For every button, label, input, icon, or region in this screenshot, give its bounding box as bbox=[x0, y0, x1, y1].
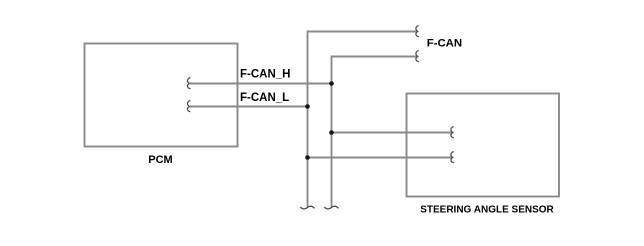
PCM label bbox=[148, 154, 172, 166]
junction dot: sensor upper wire joins bus 2 bbox=[329, 130, 334, 135]
junction dot: sensor lower wire joins bus 1 bbox=[305, 155, 310, 160]
steering angle sensor box bbox=[407, 94, 560, 197]
connector break symbol at upper F-CAN wire end bbox=[416, 26, 419, 37]
wire F-CAN_L from PCM pin to junction on bus 1 bbox=[190, 106, 308, 108]
net label F-CAN_L bbox=[240, 92, 289, 104]
connector break symbol at PCM F-CAN_L pin bbox=[187, 101, 190, 112]
svg-text:F-CAN_H: F-CAN_H bbox=[240, 69, 290, 81]
continuation wave symbol at bottom of bus 1 bbox=[301, 206, 314, 209]
wire from bus 1 junction to steering angle sensor lower pin bbox=[308, 157, 453, 159]
bus wire 1: top horizontal run to F-CAN and vertical drop bbox=[308, 32, 418, 208]
net label F-CAN_H bbox=[240, 69, 290, 81]
wire F-CAN_H from PCM pin to junction on bus 2 bbox=[190, 83, 332, 85]
svg-text:STEERING ANGLE SENSOR: STEERING ANGLE SENSOR bbox=[420, 205, 554, 216]
connector break symbol at sensor upper pin bbox=[451, 127, 454, 138]
junction dot: F-CAN_H joins bus 2 bbox=[329, 81, 334, 86]
connector break symbol at PCM F-CAN_H pin bbox=[187, 78, 190, 89]
bus wire 2: second horizontal run to F-CAN and vertical drop bbox=[332, 57, 418, 208]
svg-text:PCM: PCM bbox=[148, 154, 172, 166]
svg-text:F-CAN_L: F-CAN_L bbox=[240, 92, 289, 104]
continuation wave symbol at bottom of bus 2 bbox=[325, 206, 338, 209]
connector break symbol at sensor lower pin bbox=[451, 152, 454, 163]
PCM box bbox=[85, 44, 238, 147]
steering angle sensor label bbox=[420, 205, 554, 216]
junction dot: F-CAN_L joins bus 1 bbox=[305, 104, 310, 109]
net label F-CAN bbox=[427, 38, 462, 50]
wire from bus 2 junction to steering angle sensor upper pin bbox=[332, 132, 453, 134]
svg-text:F-CAN: F-CAN bbox=[427, 38, 462, 50]
connector break symbol at lower F-CAN wire end bbox=[416, 51, 419, 62]
